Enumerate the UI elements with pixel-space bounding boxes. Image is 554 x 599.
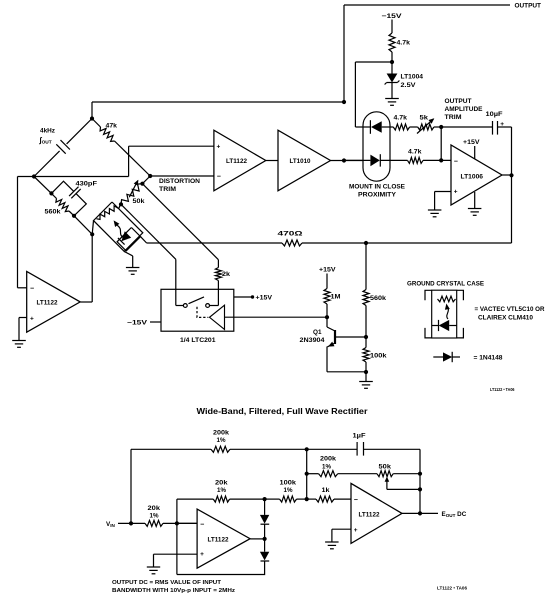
buffer U3 LT1010 <box>278 130 331 191</box>
wire U2 output <box>80 301 92 303</box>
svg-text:−: − <box>217 174 221 181</box>
node G <box>90 232 94 236</box>
diode D2 in oval <box>344 159 370 161</box>
wire oscillator top feedback <box>92 101 344 103</box>
node I <box>439 125 443 129</box>
svg-text:1/4 LTC201: 1/4 LTC201 <box>180 337 216 344</box>
legend photoresistor <box>438 296 456 302</box>
wire U3 output node <box>331 160 364 162</box>
wire node I to node J <box>440 127 442 160</box>
wire plus U6 ground <box>332 528 351 530</box>
legend LED <box>432 325 439 327</box>
capacitor 1uF <box>356 442 358 456</box>
svg-text:TRIM: TRIM <box>159 186 176 193</box>
ground optocoupler <box>126 267 139 269</box>
node F <box>72 214 76 218</box>
wire to cap 10uF <box>441 126 492 128</box>
wire node A to plus input of U1 <box>34 176 129 178</box>
resistor 4.7k upper <box>393 124 409 130</box>
photoresistor inside optocoupler <box>97 205 121 219</box>
resistor 1k <box>307 498 316 500</box>
svg-text:20k: 20k <box>148 505 161 512</box>
svg-text:1k: 1k <box>322 487 331 494</box>
node P <box>263 497 267 501</box>
resistor 47k <box>92 119 101 128</box>
svg-text:−15V: −15V <box>127 320 148 327</box>
svg-text:4.7k: 4.7k <box>408 149 422 156</box>
resistor 1M <box>324 289 330 305</box>
switch box 1/4 LTC201 <box>161 289 234 331</box>
node B distortion <box>148 174 152 178</box>
ground divider <box>359 381 373 383</box>
svg-text:= VACTEC VTL5C10 OR: = VACTEC VTL5C10 OR <box>475 306 545 313</box>
op-amp U6 LT1122 output <box>351 483 402 543</box>
node K base divider <box>364 335 368 339</box>
svg-text:CLAIREX CLM410: CLAIREX CLM410 <box>478 315 533 322</box>
svg-text:200k: 200k <box>320 456 337 463</box>
svg-text:+: + <box>30 315 34 322</box>
svg-text:200k: 200k <box>213 430 230 437</box>
ground U5 <box>147 566 160 568</box>
svg-text:MOUNT IN CLOSE: MOUNT IN CLOSE <box>349 183 405 190</box>
resistor 560k chain <box>363 290 369 306</box>
svg-text:−: − <box>200 521 204 528</box>
node R first stage out <box>263 537 267 541</box>
diode D4 <box>264 539 266 552</box>
svg-text:PROXIMITY: PROXIMITY <box>358 191 397 198</box>
switch contacts <box>175 289 177 305</box>
U4 negative supply pin ground <box>474 192 476 209</box>
wire mid vertical <box>306 449 308 499</box>
switch arm <box>189 297 205 304</box>
svg-text:OUTPUT: OUTPUT <box>515 3 542 10</box>
svg-text:50k: 50k <box>133 198 146 205</box>
wire +15V LTC201 <box>234 296 253 298</box>
wire U2 plus to ground <box>19 317 27 319</box>
wire bottom loop <box>177 561 265 575</box>
wire node C to 2k <box>142 184 218 260</box>
wire plus U5 ground <box>154 553 198 555</box>
node N <box>305 447 309 451</box>
svg-text:1%: 1% <box>217 487 226 494</box>
svg-text:47k: 47k <box>106 123 118 130</box>
svg-text:+: + <box>354 527 358 534</box>
wire U1 out to U3 <box>266 160 278 162</box>
svg-text:+: + <box>217 144 221 151</box>
oval mount in close proximity <box>363 112 390 181</box>
resistor 4.7k bias <box>389 33 395 52</box>
crystal case brackets <box>425 290 432 300</box>
svg-text:100k: 100k <box>370 353 387 360</box>
svg-text:LT1122: LT1122 <box>226 158 247 165</box>
wire left vertical first stage <box>176 499 178 574</box>
svg-text:560k: 560k <box>370 295 387 302</box>
ground LT1004 <box>385 98 399 100</box>
ground U4 plus <box>428 209 442 211</box>
ground U6 <box>325 541 339 543</box>
svg-text:TRIM: TRIM <box>445 114 462 121</box>
svg-text:LT1004: LT1004 <box>401 74 424 81</box>
svg-text:20k: 20k <box>215 479 228 486</box>
wire to node G <box>74 216 92 235</box>
wire top feedback bottom section <box>131 448 211 450</box>
zener LT1004 2.5V <box>387 74 398 83</box>
U4 output node <box>502 174 512 176</box>
wire feedback 20k <box>177 498 213 500</box>
light arrow <box>117 225 124 238</box>
svg-text:LT1122: LT1122 <box>208 537 229 544</box>
resistor 2k <box>215 268 221 281</box>
wire 200k second feedback <box>307 473 319 475</box>
resistor 100k bottom <box>280 496 297 502</box>
svg-text:1µF: 1µF <box>353 433 366 440</box>
buffer triangle in LTC201 <box>210 305 225 329</box>
node J <box>439 158 443 162</box>
svg-text:430pF: 430pF <box>76 181 98 188</box>
svg-text:4kHz: 4kHz <box>40 128 55 135</box>
capacitor C 4kHz output <box>67 119 92 144</box>
svg-text:1%: 1% <box>150 512 159 519</box>
wire 470 ohm line <box>147 242 282 244</box>
wire node D to switch <box>121 204 176 259</box>
node E 560k tap <box>364 241 368 245</box>
resistor 470ohm <box>282 240 302 246</box>
svg-text:1%: 1% <box>284 487 293 494</box>
svg-text:5k: 5k <box>420 114 429 121</box>
wire photocell left to node G <box>92 221 93 235</box>
svg-text:Wide-Band, Filtered, Full Wave: Wide-Band, Filtered, Full Wave Rectifier <box>197 407 368 416</box>
node U <box>418 511 422 515</box>
potentiometer 50k bottom <box>377 471 393 477</box>
svg-text:+: + <box>500 121 504 128</box>
svg-text:+: + <box>200 551 204 558</box>
svg-text:LT1006: LT1006 <box>461 174 484 181</box>
svg-text:1%: 1% <box>217 437 226 444</box>
svg-text:2.5V: 2.5V <box>401 82 417 89</box>
wire node G down to U2 output <box>91 234 93 302</box>
node T <box>418 487 422 491</box>
node A left osc <box>32 174 36 178</box>
wire U4 plus to ground <box>435 191 451 193</box>
svg-text:+15V: +15V <box>256 295 273 302</box>
svg-text:−: − <box>354 497 358 504</box>
optocoupler VTL5C10 outer box <box>94 202 143 251</box>
resistor 200k second <box>319 471 338 477</box>
node output junction <box>343 5 345 102</box>
wire minus input U1 <box>150 175 214 177</box>
diode D1 in oval <box>355 126 370 128</box>
svg-text:1M: 1M <box>331 294 341 301</box>
wire left node to minus loop <box>18 176 35 178</box>
legend light arrow <box>447 306 449 319</box>
transistor Q1 2N3904 <box>326 317 328 327</box>
wire U6 output <box>402 512 438 514</box>
svg-text:OUTPUT DC = RMS VALUE OF INPUT: OUTPUT DC = RMS VALUE OF INPUT <box>112 580 222 586</box>
node osc top <box>90 116 94 120</box>
svg-text:BANDWIDTH WITH 10Vp-p INPUT =: BANDWIDTH WITH 10Vp-p INPUT = 2MHz <box>112 588 235 594</box>
ground U2 <box>12 340 26 342</box>
resistor-capacitor parallel 560k 430pF <box>34 177 51 194</box>
svg-text:Q1: Q1 <box>313 329 322 336</box>
wire output top <box>344 4 510 6</box>
diode D3 <box>264 499 266 515</box>
resistor 20k input <box>145 520 163 526</box>
optocoupler inner LED box <box>117 228 140 251</box>
svg-text:10µF: 10µF <box>486 111 503 118</box>
op-amp U5 LT1122 bottom first <box>197 509 250 568</box>
svg-text:100k: 100k <box>280 479 297 486</box>
resistor 200k top <box>211 446 230 452</box>
potentiometer 50k distortion trim <box>121 184 142 205</box>
svg-text:LT1122: LT1122 <box>359 512 380 519</box>
resistor 20k feedback <box>213 496 229 502</box>
op-amp U4 LT1006 <box>451 145 502 205</box>
svg-text:LT1122 • TA06: LT1122 • TA06 <box>490 387 515 392</box>
potentiometer 5k output amplitude trim <box>418 124 434 130</box>
node H LT1004 <box>390 60 394 64</box>
svg-text:AMPLITUDE: AMPLITUDE <box>445 106 483 113</box>
svg-text:GROUND CRYSTAL CASE: GROUND CRYSTAL CASE <box>407 281 484 288</box>
svg-text:560k: 560k <box>45 209 62 216</box>
node D photocell top <box>119 202 123 206</box>
node S <box>418 472 422 476</box>
node Q <box>305 497 309 501</box>
node C <box>140 182 144 186</box>
svg-text:+15V: +15V <box>463 139 480 146</box>
wire node B to node C <box>142 176 150 184</box>
svg-text:50k: 50k <box>379 464 392 471</box>
resistor 4.7k lower <box>408 157 424 163</box>
svg-text:470Ω: 470Ω <box>278 230 303 237</box>
node L emitter <box>364 370 368 374</box>
capacitor 10uF <box>492 121 494 135</box>
svg-text:−15V: −15V <box>382 13 403 20</box>
wire minus U5 <box>177 522 197 524</box>
node M Q1 collector <box>325 315 329 319</box>
wire 560k chain <box>365 243 367 290</box>
svg-text:LT1010: LT1010 <box>290 158 311 165</box>
wire top loop down <box>130 449 132 523</box>
wire LED anode out <box>141 237 147 243</box>
svg-text:−: − <box>454 158 458 165</box>
resistor 100k <box>365 337 367 348</box>
svg-text:OUTPUT: OUTPUT <box>445 98 472 105</box>
svg-text:−: − <box>30 285 34 292</box>
svg-text:+: + <box>454 189 458 196</box>
svg-text:2N3904: 2N3904 <box>300 337 326 344</box>
svg-text:1%: 1% <box>322 463 331 470</box>
svg-text:+15V: +15V <box>319 267 336 274</box>
wiper arrow 50k <box>386 481 388 489</box>
wire buffer out to Q1 <box>225 316 328 318</box>
svg-text:LT1122: LT1122 <box>37 300 58 307</box>
legend diode 1N4148 <box>433 356 443 358</box>
wire right feedback up <box>511 175 513 243</box>
dashed control line <box>197 307 208 318</box>
wire node H to oval <box>355 61 392 63</box>
op-amp U2 LT1122 integrator <box>27 272 80 333</box>
svg-text:4.7k: 4.7k <box>394 114 408 121</box>
wire LED to ground <box>124 251 133 256</box>
svg-text:LT1122 • TA06: LT1122 • TA06 <box>437 586 468 591</box>
svg-text:DISTORTION: DISTORTION <box>159 178 200 185</box>
LED in optocoupler <box>121 231 131 241</box>
node O minus input <box>175 521 179 525</box>
svg-text:2k: 2k <box>222 271 231 278</box>
svg-text:= 1N4148: = 1N4148 <box>474 355 504 362</box>
svg-text:4.7k: 4.7k <box>397 40 411 47</box>
op-amp U1 LT1122 <box>214 130 266 191</box>
